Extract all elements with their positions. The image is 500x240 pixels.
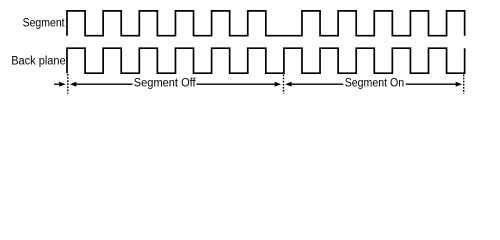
wire segment-on-dimension [285, 82, 462, 87]
svg-text:Segment: Segment [23, 17, 66, 29]
node dotted-divider-middle [283, 75, 285, 94]
wire lead-in-arrow [54, 82, 66, 87]
svg-text:Segment Off: Segment Off [134, 77, 197, 89]
svg-text:Segment On: Segment On [345, 77, 405, 89]
node dotted-divider-left [67, 74, 69, 94]
svg-text:Back plane: Back plane [11, 55, 65, 67]
node dotted-divider-right [463, 75, 465, 94]
wire segment-waveform [67, 11, 465, 36]
wire backplane-waveform [67, 48, 465, 73]
wire segment-off-dimension [70, 82, 281, 87]
